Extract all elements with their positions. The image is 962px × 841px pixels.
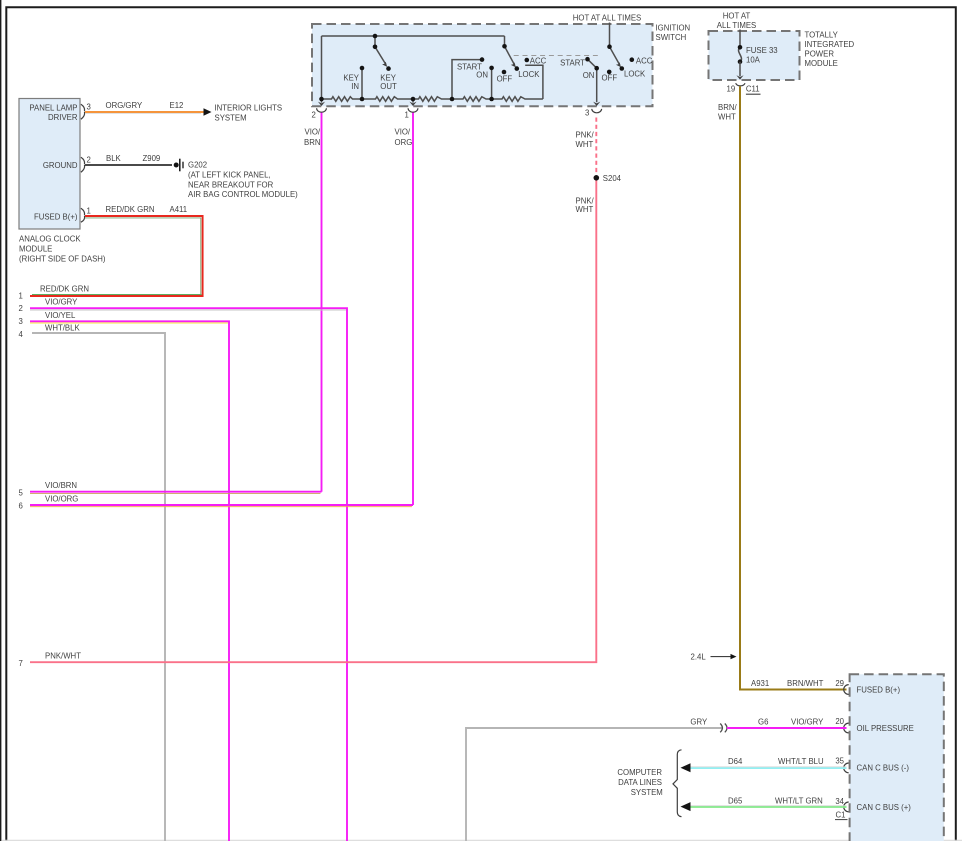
left drop to bus	[321, 36, 323, 99]
wire ORG/GRY pin 3	[85, 111, 204, 113]
pivot drop group1	[504, 36, 506, 46]
contact ON 2	[594, 66, 599, 71]
arrow arm 2	[616, 62, 621, 67]
arm group2 start to on	[588, 59, 597, 68]
ignition switch internals	[322, 23, 620, 103]
arrow key out arm	[382, 62, 387, 67]
svg-text:10A: 10A	[746, 56, 761, 65]
svg-text:(RIGHT SIDE OF DASH): (RIGHT SIDE OF DASH)	[19, 254, 106, 263]
svg-text:LOCK: LOCK	[624, 69, 646, 78]
svg-text:PNK/WHT: PNK/WHT	[45, 652, 81, 661]
DK GRN tracer stripe	[85, 218, 201, 294]
arm group1	[505, 46, 515, 65]
contact KEY IN	[360, 66, 365, 71]
connector pin 1	[408, 108, 418, 112]
key in post	[361, 68, 363, 99]
svg-text:VIO/ORG: VIO/ORG	[45, 495, 78, 504]
pivot arm 2	[607, 44, 612, 49]
fuse feed line	[739, 30, 741, 48]
contact dots	[319, 34, 634, 102]
svg-text:BRN/WHT: BRN/WHT	[787, 679, 824, 688]
contact ON 1	[489, 66, 494, 71]
ignition pin1 drop	[412, 99, 414, 103]
wire BRN/WHT	[740, 86, 847, 689]
svg-text:VIO/GRY: VIO/GRY	[45, 297, 78, 306]
contact ACC 1	[525, 58, 530, 63]
start shelf group1	[452, 60, 482, 99]
svg-text:OFF: OFF	[602, 73, 618, 82]
resistive bus	[322, 97, 543, 102]
svg-text:INTERIOR LIGHTS: INTERIOR LIGHTS	[215, 104, 283, 113]
connector pin 29	[844, 685, 849, 695]
svg-text:ON: ON	[476, 70, 488, 79]
key out pivot stub	[374, 36, 376, 47]
pin connector arcs below ignition box	[317, 108, 602, 112]
ACC riser	[525, 65, 543, 99]
svg-text:IGNITION: IGNITION	[656, 23, 691, 32]
connector pin 34	[844, 802, 849, 812]
hot feed group2	[609, 23, 611, 47]
pin 1 connector	[81, 208, 85, 222]
svg-text:DATA LINES: DATA LINES	[618, 778, 662, 787]
contact LOCK 1	[515, 66, 520, 71]
svg-text:G6: G6	[758, 718, 768, 727]
svg-text:POWER: POWER	[805, 50, 835, 59]
wire GRY to oil pressure	[466, 728, 723, 841]
svg-text:3: 3	[585, 108, 589, 117]
svg-text:A931: A931	[751, 679, 769, 688]
ignition switch box	[312, 24, 653, 106]
svg-text:C1: C1	[836, 811, 846, 820]
svg-text:C11: C11	[746, 85, 760, 94]
svg-text:WHT: WHT	[576, 140, 594, 149]
svg-text:VIO/YEL: VIO/YEL	[45, 311, 76, 320]
contact OFF 2	[607, 70, 612, 75]
svg-text:SWITCH: SWITCH	[656, 33, 687, 42]
wire PNK/WHT row 7	[30, 181, 596, 663]
wire WHT/LT GRN pin 34	[689, 805, 847, 807]
svg-text:HOT AT ALL TIMES: HOT AT ALL TIMES	[573, 14, 641, 23]
svg-text:FUSED B(+): FUSED B(+)	[857, 686, 901, 695]
arrow fuse output	[736, 75, 743, 79]
wire VIO/BRN ignition pin 2	[321, 112, 323, 492]
svg-text:IN: IN	[351, 82, 359, 91]
contact LOCK 2	[620, 66, 625, 71]
svg-text:6: 6	[19, 502, 23, 511]
svg-text:1: 1	[87, 207, 91, 216]
svg-text:GRY: GRY	[690, 718, 708, 727]
ORG tracer row 6	[30, 506, 412, 508]
svg-text:2.4L: 2.4L	[691, 653, 707, 662]
svg-text:2: 2	[311, 111, 315, 120]
svg-text:2: 2	[19, 304, 23, 313]
svg-text:ACC: ACC	[636, 57, 653, 66]
svg-text:SYSTEM: SYSTEM	[215, 113, 247, 122]
wire VIO/GRY row 2	[30, 308, 347, 841]
svg-text:20: 20	[835, 717, 844, 726]
arrow pin 3	[593, 102, 600, 106]
pivot KEY OUT	[373, 45, 378, 50]
svg-text:ANALOG CLOCK: ANALOG CLOCK	[19, 235, 81, 244]
svg-text:FUSED B(+): FUSED B(+)	[34, 212, 78, 221]
svg-text:OIL PRESSURE: OIL PRESSURE	[857, 724, 914, 733]
top feed line	[322, 35, 505, 37]
junction bus left / pin 2	[319, 97, 324, 102]
pivot arm 1	[502, 44, 507, 49]
svg-text:CAN C BUS (-): CAN C BUS (-)	[857, 764, 910, 773]
svg-text:VIO/: VIO/	[305, 128, 321, 137]
svg-text:CAN C BUS (+): CAN C BUS (+)	[857, 803, 912, 812]
svg-text:WHT/LT GRN: WHT/LT GRN	[775, 797, 823, 806]
arrow D64 to data lines	[681, 763, 691, 772]
svg-text:A411: A411	[170, 205, 188, 214]
GRY tracer stripe	[85, 113, 201, 115]
svg-text:RED/DK GRN: RED/DK GRN	[106, 205, 155, 214]
arrow pin 2	[318, 102, 325, 106]
svg-text:ORG: ORG	[395, 138, 413, 147]
svg-text:COMPUTER: COMPUTER	[617, 768, 662, 777]
svg-text:BLK: BLK	[106, 154, 122, 163]
svg-text:ACC: ACC	[530, 57, 547, 66]
wire WHT/BLK row 4	[32, 333, 165, 841]
contact OFF 1	[502, 70, 507, 75]
svg-text:(AT LEFT KICK PANEL,: (AT LEFT KICK PANEL,	[188, 170, 271, 179]
svg-text:5: 5	[19, 488, 24, 497]
svg-text:LOCK: LOCK	[518, 70, 540, 79]
svg-text:WHT: WHT	[718, 112, 736, 121]
svg-text:Z909: Z909	[143, 154, 161, 163]
page edge line	[0, 0, 2, 841]
svg-text:VIO/GRY: VIO/GRY	[791, 718, 824, 727]
svg-text:4: 4	[19, 330, 24, 339]
svg-text:OUT: OUT	[380, 82, 397, 91]
key out arm	[375, 47, 386, 65]
wire VIO/GRY pin 20	[727, 727, 847, 729]
fuse 33 element	[738, 47, 741, 61]
ignition pin2 drop	[321, 99, 323, 103]
svg-text:19: 19	[727, 85, 736, 94]
inline connector	[720, 724, 727, 733]
arrow to interior lights	[204, 108, 212, 115]
svg-text:FUSE 33: FUSE 33	[746, 46, 778, 55]
svg-text:GROUND: GROUND	[43, 161, 78, 170]
ground G202	[174, 163, 179, 168]
wire VIO/ORG row 6	[30, 504, 413, 506]
wire RED/DK GRN pin 1	[30, 216, 203, 296]
svg-text:G202: G202	[188, 160, 207, 169]
pin arcs on right box	[844, 685, 849, 812]
splice S204	[594, 175, 600, 181]
svg-text:VIO/BRN: VIO/BRN	[45, 481, 77, 490]
svg-text:INTEGRATED: INTEGRATED	[805, 40, 855, 49]
BRN tracer row 5	[30, 492, 320, 494]
arrow D65 to data lines	[681, 802, 691, 811]
svg-text:START: START	[560, 58, 585, 67]
svg-text:MODULE: MODULE	[805, 59, 838, 68]
svg-text:1: 1	[19, 291, 23, 300]
svg-text:PANEL LAMP: PANEL LAMP	[29, 104, 77, 113]
svg-text:29: 29	[835, 679, 844, 688]
analog clock module box	[19, 99, 80, 230]
svg-text:BRN/: BRN/	[718, 103, 737, 112]
DK GRN tracer row 1	[32, 293, 202, 295]
svg-text:AIR BAG CONTROL MODULE): AIR BAG CONTROL MODULE)	[188, 190, 298, 199]
svg-text:35: 35	[835, 757, 844, 766]
svg-text:3: 3	[19, 317, 23, 326]
svg-text:MODULE: MODULE	[19, 244, 52, 253]
pin 2 connector	[81, 157, 85, 172]
2.4L pointer line	[711, 656, 732, 658]
svg-text:D65: D65	[728, 797, 743, 806]
svg-text:34: 34	[835, 797, 844, 806]
svg-text:ALL TIMES: ALL TIMES	[717, 21, 756, 30]
bottom edge light line	[2, 839, 962, 841]
svg-text:WHT/LT BLU: WHT/LT BLU	[778, 757, 824, 766]
svg-text:HOT AT: HOT AT	[723, 12, 751, 21]
right module box	[850, 674, 944, 841]
wire WHT/LT BLU pin 35	[689, 766, 847, 768]
svg-text:D64: D64	[728, 757, 743, 766]
wire BLK pin 2	[85, 164, 172, 166]
contact START 2	[585, 57, 590, 62]
svg-text:VIO/: VIO/	[395, 128, 411, 137]
svg-text:RED/DK GRN: RED/DK GRN	[40, 285, 89, 294]
junction KEY IN bus	[360, 97, 365, 102]
arrow arm 1	[511, 62, 516, 67]
brace	[673, 750, 682, 817]
wire VIO/ORG ignition pin 1	[412, 112, 414, 505]
connector pin 20	[844, 723, 849, 733]
svg-text:ORG/GRY: ORG/GRY	[106, 101, 143, 110]
contact KEY OUT	[386, 66, 391, 71]
svg-text:DRIVER: DRIVER	[48, 113, 78, 122]
arrow pin 1	[409, 102, 416, 106]
svg-text:WHT/BLK: WHT/BLK	[45, 324, 80, 333]
arm group2 pivot to lock	[610, 47, 620, 65]
svg-text:TOTALLY: TOTALLY	[805, 30, 839, 39]
on post group1	[491, 68, 493, 99]
connector C11 arc	[736, 83, 745, 86]
svg-text:3: 3	[87, 103, 91, 112]
junction KEY OUT top line	[373, 34, 378, 39]
totally integrated power module box	[709, 31, 800, 80]
YEL tracer row 3	[30, 322, 228, 324]
svg-text:NEAR BREAKOUT FOR: NEAR BREAKOUT FOR	[188, 180, 274, 189]
svg-text:WHT: WHT	[576, 205, 594, 214]
contact START 1	[480, 57, 485, 62]
connector pin 3	[592, 109, 602, 113]
connector pin 35	[844, 763, 849, 773]
junction START shelf bus	[450, 97, 455, 102]
svg-text:7: 7	[19, 659, 23, 668]
svg-text:S204: S204	[603, 174, 622, 183]
contact ACC 2	[630, 57, 635, 62]
svg-text:E12: E12	[170, 101, 184, 110]
2.4L pointer arrow	[731, 654, 737, 659]
pin 3 connector	[81, 104, 85, 222]
ignition pin3 drop	[596, 68, 598, 102]
arrowheads down at pins	[318, 62, 621, 106]
svg-text:2: 2	[87, 156, 91, 165]
fuse output line	[739, 62, 741, 76]
wire PNK/WHT dashed from ignition pin 3	[595, 118, 597, 176]
svg-text:1: 1	[405, 111, 409, 120]
wire VIO/BRN row 5	[30, 491, 322, 493]
svg-text:ON: ON	[583, 71, 595, 80]
svg-text:BRN: BRN	[304, 138, 320, 147]
svg-text:PNK/: PNK/	[576, 131, 595, 140]
wire VIO/YEL row 3	[30, 321, 229, 841]
mechanical link dashed	[514, 55, 598, 57]
junction bus / pin 1	[411, 97, 416, 102]
junction ON post bus	[489, 97, 494, 102]
svg-text:SYSTEM: SYSTEM	[631, 788, 663, 797]
connector pin 2	[317, 108, 327, 112]
GRY tracer row 2	[30, 309, 346, 311]
svg-text:OFF: OFF	[497, 75, 513, 84]
